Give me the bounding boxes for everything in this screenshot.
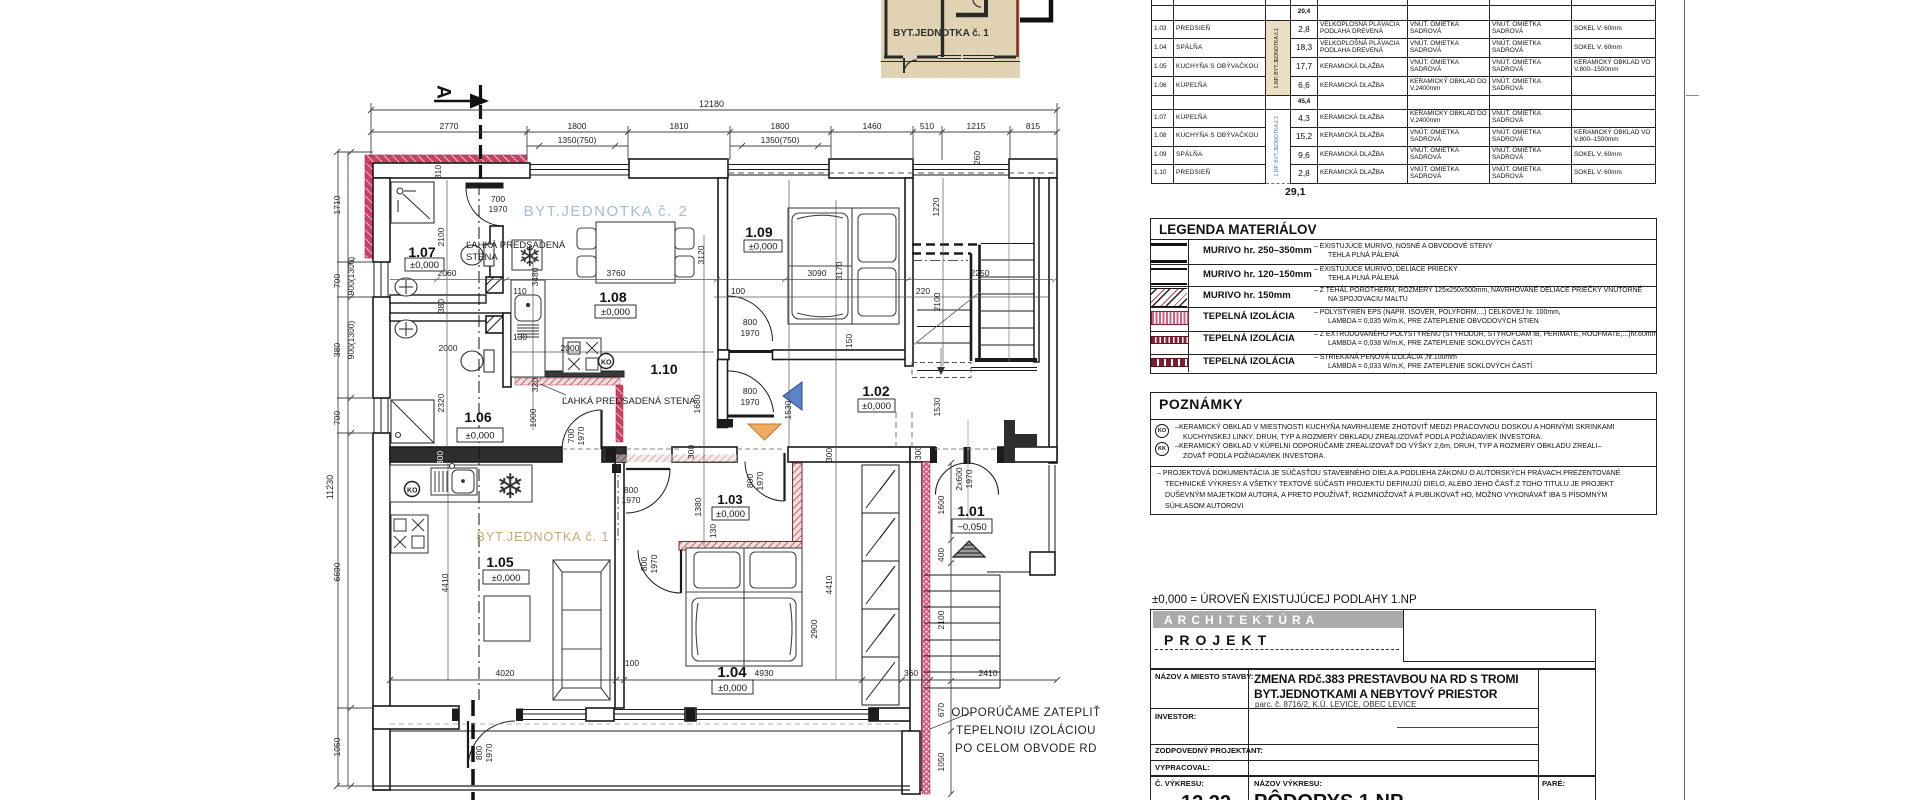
wall 1.05 / 1.03-1.04 vertical bbox=[615, 462, 624, 708]
cut row bbox=[1152, 0, 1656, 183]
bottom wall pier B bbox=[586, 708, 614, 721]
svg-text:1050: 1050 bbox=[332, 737, 342, 756]
interior dim line horizontal upper bbox=[390, 277, 1058, 297]
floor edge below stairs bbox=[917, 368, 1037, 371]
left wall terrace block bbox=[373, 708, 390, 790]
header cell divider bbox=[1403, 610, 1404, 662]
door dim labels bbox=[474, 194, 974, 762]
inset neighbour unit walls bbox=[1020, 0, 1053, 22]
svg-text:800: 800 bbox=[743, 386, 757, 396]
svg-text:±0,000: ±0,000 bbox=[862, 401, 891, 412]
svg-text:1460: 1460 bbox=[863, 121, 882, 131]
fridge snowflake 1.08 bbox=[512, 240, 542, 272]
svg-text:320: 320 bbox=[530, 378, 540, 392]
svg-text:1970: 1970 bbox=[622, 495, 641, 505]
svg-text:1.10: 1.10 bbox=[650, 361, 677, 377]
inset left wall bbox=[885, 0, 888, 58]
existing wall hatch in sep wall bbox=[613, 455, 737, 463]
svg-text:1380: 1380 bbox=[693, 497, 703, 516]
shower 1.06 bbox=[391, 400, 434, 443]
entrance door jambs bbox=[930, 447, 937, 463]
svg-text:1970: 1970 bbox=[489, 204, 508, 214]
shower 1.07 bbox=[391, 182, 434, 223]
svg-text:1810: 1810 bbox=[670, 121, 689, 131]
stair landing slab bottom thick bbox=[975, 358, 1037, 362]
svg-text:1.08: 1.08 bbox=[599, 289, 626, 305]
svg-text:A: A bbox=[433, 85, 454, 99]
window W6 bottom wall bbox=[516, 710, 586, 720]
svg-text:670: 670 bbox=[936, 703, 946, 717]
dimension chain left outer 11230 bbox=[334, 149, 340, 789]
note KO bbox=[1155, 424, 1169, 438]
porch side wall lines bbox=[987, 465, 1055, 572]
svg-text:310: 310 bbox=[433, 165, 443, 179]
threshold dashed lines bbox=[562, 448, 999, 450]
KO circle 1.08 bbox=[599, 354, 614, 369]
dining table 1.08 bbox=[577, 222, 694, 283]
svg-text:PO CELOM OBVODE RD: PO CELOM OBVODE RD bbox=[955, 743, 1097, 755]
svg-text:1.09: 1.09 bbox=[745, 224, 772, 240]
svg-text:1.06: 1.06 bbox=[464, 409, 491, 425]
svg-text:TEPELNOIU IZOLÁCIOU: TEPELNOIU IZOLÁCIOU bbox=[956, 724, 1096, 737]
bed 1.09 bbox=[788, 208, 899, 324]
wall stub above entrance horizontal bbox=[1015, 434, 1037, 448]
svg-text:1970: 1970 bbox=[741, 397, 760, 407]
window left wall W5 bbox=[374, 398, 388, 433]
signature lines bbox=[1397, 727, 1538, 728]
svg-text:380: 380 bbox=[436, 299, 446, 313]
svg-text:±0,000: ±0,000 bbox=[410, 260, 439, 271]
svg-text:KO: KO bbox=[601, 360, 612, 367]
window W2 top wall bbox=[728, 165, 829, 176]
subtotal 29,1 below table bbox=[1285, 187, 1305, 198]
svg-text:2000: 2000 bbox=[561, 343, 580, 353]
exterior entry stairs bbox=[924, 575, 1000, 688]
svg-text:2100: 2100 bbox=[936, 610, 946, 629]
svg-text:ĽAHKÁ PREDSADENÁ STENA: ĽAHKÁ PREDSADENÁ STENA bbox=[562, 396, 696, 407]
svg-text:800: 800 bbox=[743, 317, 757, 327]
svg-text:130: 130 bbox=[513, 332, 527, 342]
svg-text:2x600: 2x600 bbox=[954, 467, 964, 490]
shaft square 2 bbox=[486, 316, 503, 333]
svg-text:130: 130 bbox=[708, 524, 718, 538]
terrace right closure block bbox=[902, 731, 920, 794]
svg-text:2000: 2000 bbox=[439, 343, 458, 353]
pier top wall right corner bbox=[1009, 159, 1057, 178]
svg-text:4020: 4020 bbox=[496, 668, 515, 678]
row 1.07 bbox=[1152, 110, 1656, 128]
insulation red strip right vertical bbox=[922, 462, 930, 794]
inset door arc top bbox=[973, 0, 981, 7]
wall 1.06/1.10 vertical bbox=[503, 313, 511, 387]
bottom wall pier D bbox=[869, 708, 910, 721]
subtotal row 20,4 bbox=[1152, 5, 1656, 20]
inset outer edge line bbox=[881, 61, 1020, 63]
svg-text:1.05: 1.05 bbox=[486, 554, 513, 570]
window W8 bottom wall (1.04) bbox=[696, 710, 869, 720]
svg-text:700: 700 bbox=[332, 274, 342, 288]
entrance door double arcs bbox=[936, 463, 999, 495]
svg-text:800: 800 bbox=[474, 746, 484, 760]
bed 1.04 bbox=[686, 548, 802, 666]
svg-text:2100: 2100 bbox=[436, 227, 446, 246]
svg-text:300: 300 bbox=[686, 445, 696, 459]
svg-text:150: 150 bbox=[844, 334, 854, 348]
separating wall segment 2 bbox=[602, 447, 626, 462]
top exterior wall solid left segment bbox=[373, 163, 530, 178]
recommendation note text bbox=[951, 706, 1100, 755]
entrance wall right segment bbox=[998, 447, 1057, 462]
bottom band bbox=[1151, 775, 1595, 777]
insulation red strip left vertical bbox=[365, 163, 373, 258]
svg-text:1970: 1970 bbox=[741, 328, 760, 338]
svg-text:±0,000: ±0,000 bbox=[466, 431, 495, 442]
door arc 1.10 to 1.03 bbox=[626, 469, 670, 513]
svg-text:❄: ❄ bbox=[496, 468, 525, 506]
pier top wall 2 bbox=[829, 159, 913, 178]
svg-text:1.03: 1.03 bbox=[717, 492, 742, 507]
zodpovedny row bbox=[1151, 744, 1538, 745]
svg-text:300: 300 bbox=[913, 446, 923, 460]
cooktop 1.08 bbox=[563, 338, 601, 373]
corner jamb 1.10 bbox=[718, 419, 734, 428]
architektura grey band bbox=[1153, 611, 1403, 628]
right column divider bbox=[1538, 668, 1539, 800]
svg-text:BYT.JEDNOTKA č. 2: BYT.JEDNOTKA č. 2 bbox=[524, 203, 689, 220]
interior dim verticals bbox=[447, 178, 943, 680]
svg-text:1800: 1800 bbox=[771, 121, 790, 131]
svg-text:1.04: 1.04 bbox=[717, 664, 747, 681]
investor row bbox=[1151, 708, 1538, 709]
svg-text:2900: 2900 bbox=[809, 619, 819, 638]
wall bottom of 1.09 right part bbox=[773, 350, 913, 360]
walking line arrow bbox=[937, 367, 945, 375]
row 1.03 bbox=[1152, 20, 1656, 39]
wall 1.10|1.02 vertical stub bbox=[718, 360, 728, 428]
svg-text:STENA: STENA bbox=[466, 252, 498, 263]
svg-text:900(1300): 900(1300) bbox=[346, 256, 356, 295]
entrance door axis line bbox=[967, 420, 969, 532]
svg-text:2320: 2320 bbox=[436, 393, 446, 412]
svg-text:3480: 3480 bbox=[530, 267, 540, 286]
window left wall W4 bbox=[374, 262, 388, 297]
svg-text:KO: KO bbox=[407, 488, 418, 495]
window W1 top wall bbox=[530, 165, 629, 176]
svg-text:1710: 1710 bbox=[332, 195, 342, 214]
wall stub above entrance vertical bbox=[1004, 420, 1015, 463]
kitchen counter 1.05 bbox=[390, 464, 532, 503]
left exterior wall upper bbox=[373, 178, 390, 262]
subtotal row 45,4 bbox=[1152, 96, 1656, 110]
svg-text:100: 100 bbox=[731, 286, 745, 296]
svg-text:3090: 3090 bbox=[808, 268, 827, 278]
left column lower steps bbox=[917, 310, 971, 343]
entrance door centre post bbox=[964, 447, 971, 464]
stair landing edge outer dashed L bbox=[912, 243, 980, 246]
entry triangle marker 1.01 bbox=[953, 541, 985, 557]
orange triangle marker bbox=[748, 424, 781, 440]
svg-text:1.02: 1.02 bbox=[862, 383, 889, 399]
terrace outer edge bbox=[373, 786, 910, 790]
stair right wall bbox=[1034, 178, 1039, 362]
blue triangle marker bbox=[783, 382, 802, 410]
shaft square 1 bbox=[486, 277, 503, 293]
svg-text:1970: 1970 bbox=[755, 471, 765, 490]
inset interior wall bbox=[941, 0, 944, 57]
svg-text:700: 700 bbox=[332, 411, 342, 425]
svg-text:1350(750): 1350(750) bbox=[761, 135, 800, 145]
dimension chain right porch bbox=[948, 460, 954, 797]
svg-text:4410: 4410 bbox=[440, 573, 450, 592]
svg-text:1800: 1800 bbox=[568, 121, 587, 131]
insulation red strip top-left horizontal bbox=[365, 155, 527, 163]
kitchen partition light wall bbox=[511, 371, 624, 377]
entrance wall left jamb bbox=[910, 447, 935, 462]
svg-text:220: 220 bbox=[916, 286, 930, 296]
terrace step line bbox=[390, 730, 902, 732]
svg-text:900(1300): 900(1300) bbox=[346, 320, 356, 359]
svg-text:800: 800 bbox=[624, 485, 638, 495]
stair landing edge inner dashed L bbox=[912, 252, 971, 255]
wall 1.08|1.09 vertical bbox=[718, 178, 728, 350]
svg-text:1215: 1215 bbox=[967, 121, 986, 131]
vypracoval row bbox=[1151, 760, 1538, 761]
black jambs bottom wall bbox=[452, 447, 879, 721]
basin 1.06 bbox=[395, 320, 417, 338]
svg-text:±0,000: ±0,000 bbox=[749, 242, 778, 253]
symbol murivo 120-150 bbox=[1151, 268, 1187, 285]
symbol izolacia eps bbox=[1151, 311, 1189, 325]
inset bottom windows bbox=[938, 56, 994, 59]
wardrobe 1.04 bbox=[862, 465, 899, 705]
copyright paragraph bbox=[1157, 470, 1620, 477]
svg-text:800: 800 bbox=[639, 557, 649, 571]
window W3 top wall bbox=[913, 165, 1009, 176]
upper wing interior: wall between 1.07 and 1.06 (duct band) bbox=[390, 295, 503, 321]
svg-text:300: 300 bbox=[824, 448, 834, 462]
window W7 bottom wall bbox=[614, 710, 685, 720]
jamb black at 1.03 left bbox=[612, 464, 621, 473]
svg-text:1970: 1970 bbox=[484, 743, 494, 762]
small tick on right border bbox=[1686, 95, 1699, 96]
svg-text:1.01: 1.01 bbox=[957, 503, 984, 519]
svg-text:4930: 4930 bbox=[755, 668, 774, 678]
svg-text:±0,000: ±0,000 bbox=[601, 307, 630, 318]
door arc 1.03 to 1.04 bbox=[638, 550, 681, 593]
new porotherm wall vertical (right of 1.03) bbox=[793, 463, 803, 547]
svg-text:11230: 11230 bbox=[325, 475, 335, 499]
walking line diagonal bbox=[912, 292, 980, 346]
section arrow A bbox=[433, 85, 490, 108]
svg-text:12180: 12180 bbox=[699, 99, 724, 109]
svg-text:700: 700 bbox=[566, 429, 576, 443]
separating wall segment 3 bbox=[672, 447, 737, 462]
svg-text:300: 300 bbox=[435, 451, 445, 465]
coffee table 1.05 bbox=[484, 596, 530, 641]
note KK bbox=[1155, 442, 1169, 456]
svg-text:1530: 1530 bbox=[932, 397, 942, 416]
porch pillar bbox=[1030, 552, 1055, 575]
svg-text:400: 400 bbox=[936, 548, 946, 562]
legend title bbox=[1159, 223, 1317, 237]
svg-text:815: 815 bbox=[1026, 121, 1040, 131]
svg-text:1350(750): 1350(750) bbox=[558, 135, 597, 145]
insulation red strip vertical at corridor bbox=[616, 385, 623, 442]
door arc terrace bbox=[468, 721, 515, 768]
svg-text:2250: 2250 bbox=[971, 268, 990, 278]
svg-text:1970: 1970 bbox=[576, 426, 586, 445]
svg-text:2100: 2100 bbox=[932, 292, 942, 311]
svg-text:±0,000: ±0,000 bbox=[716, 509, 745, 520]
svg-text:1970: 1970 bbox=[964, 469, 974, 488]
cut big texts at bottom bbox=[1181, 793, 1231, 800]
separating wall segment 4 bbox=[788, 447, 910, 462]
stair flight axis dash-dot bbox=[912, 260, 968, 262]
row 1.06 bbox=[1152, 77, 1656, 96]
svg-text:±0,000: ±0,000 bbox=[718, 683, 747, 694]
basin 1.07 bbox=[395, 278, 417, 296]
svg-text:1000: 1000 bbox=[528, 408, 538, 427]
bottom wall pier C bbox=[685, 708, 696, 721]
bottom exterior wall segment A bbox=[373, 706, 459, 729]
right lower wall (porch side) bbox=[910, 462, 922, 790]
dimension line bottom rooms bbox=[387, 677, 1060, 683]
svg-text:6690: 6690 bbox=[332, 562, 342, 581]
svg-text:−0,050: −0,050 bbox=[957, 522, 986, 533]
dashed area under stairs bbox=[912, 363, 971, 378]
symbol izolacia xps bbox=[1151, 336, 1189, 344]
door arc 1.09 bbox=[728, 296, 773, 352]
svg-text:360: 360 bbox=[904, 668, 918, 678]
section line A-A bbox=[473, 85, 481, 800]
door arc 1.07 bbox=[466, 183, 504, 226]
dimension chain left segments bbox=[337, 149, 373, 789]
hidden line above plan dashed bbox=[728, 172, 1057, 174]
stove 1.05 bbox=[391, 515, 428, 553]
svg-text:110: 110 bbox=[513, 286, 527, 296]
svg-text:4410: 4410 bbox=[824, 575, 834, 594]
inset red edge line bbox=[1016, 0, 1019, 57]
new porotherm wall horizontal (below 1.03) bbox=[679, 542, 802, 551]
wall bottom of 1.09 left part bbox=[718, 350, 729, 360]
inset bottom wall segments bbox=[884, 56, 1016, 59]
pier top wall 1 bbox=[629, 159, 728, 178]
insulation pink strip along partition bbox=[515, 378, 620, 385]
svg-text:380: 380 bbox=[332, 343, 342, 357]
svg-text:1970: 1970 bbox=[649, 554, 659, 573]
dashed line under bottom wall bbox=[390, 723, 902, 725]
svg-text:1600: 1600 bbox=[936, 495, 946, 514]
kitchen counter 1.08 vertical bbox=[511, 280, 545, 377]
stair left wall bbox=[905, 178, 913, 366]
row 1.08 bbox=[1152, 127, 1656, 146]
svg-text:510: 510 bbox=[920, 121, 934, 131]
left exterior wall lower bbox=[373, 433, 390, 708]
svg-text:3170: 3170 bbox=[834, 261, 844, 280]
svg-text:3760: 3760 bbox=[607, 268, 626, 278]
symbol murivo 250-350 bbox=[1151, 243, 1187, 263]
svg-text:1220: 1220 bbox=[931, 197, 941, 216]
separating wall between wings segment 1 bbox=[390, 447, 562, 462]
svg-text:BYT.JEDNOTKA č. 1: BYT.JEDNOTKA č. 1 bbox=[476, 530, 609, 544]
svg-text:260: 260 bbox=[972, 151, 982, 165]
stair axis ext line bbox=[1008, 178, 1010, 362]
svg-text:2770: 2770 bbox=[440, 121, 459, 131]
door axis dashed lines 1.02 bbox=[896, 412, 912, 447]
row 1.05 bbox=[1152, 58, 1656, 77]
KO circle 1.05 bbox=[405, 482, 420, 497]
legend texts bbox=[1203, 246, 1312, 256]
wc 1.06 bbox=[461, 350, 494, 372]
row 1.10 bbox=[1152, 165, 1656, 184]
door arc sep-wall 700 upper leaf bbox=[562, 410, 602, 450]
door arc 1.10 to 1.02 bbox=[728, 371, 775, 416]
inset door leaf + arc bbox=[904, 58, 917, 73]
svg-text:BYT.JEDNOTKA č. 1: BYT.JEDNOTKA č. 1 bbox=[893, 28, 989, 39]
notes title bbox=[1159, 397, 1243, 411]
svg-text:100: 100 bbox=[625, 658, 639, 668]
left exterior wall mid bbox=[373, 297, 390, 398]
right exterior wall of upper wing bbox=[1049, 178, 1057, 463]
svg-text:1530: 1530 bbox=[783, 400, 793, 419]
row 1.09 bbox=[1152, 146, 1656, 165]
dimension chain top overall bbox=[368, 103, 1060, 160]
dimension chain top partial windows bbox=[527, 143, 831, 149]
wc 1.07 bbox=[461, 244, 494, 266]
projekt bbox=[1164, 633, 1272, 647]
page frame right border bbox=[1684, 0, 1685, 800]
symbol murivo 150 red hatch bbox=[1151, 288, 1187, 307]
svg-text:700: 700 bbox=[491, 194, 505, 204]
door arc 1.02 to 1.03 bbox=[745, 453, 785, 501]
svg-text:±0,000: ±0,000 bbox=[492, 573, 521, 584]
svg-text:ĽAHKÁ PREDSADENÁ: ĽAHKÁ PREDSADENÁ bbox=[466, 240, 566, 251]
svg-text:800: 800 bbox=[745, 474, 755, 488]
dimension chain top segments bbox=[368, 126, 1060, 160]
wall axis dashed 1.03 bbox=[617, 464, 619, 540]
svg-text:2410: 2410 bbox=[979, 668, 998, 678]
wall 1.07/1.08 vertical bbox=[490, 226, 503, 277]
inset L wall bbox=[956, 0, 988, 16]
lower flight steps right column bbox=[981, 244, 1034, 346]
svg-text:ODPORÚČAME ZATEPLIŤ: ODPORÚČAME ZATEPLIŤ bbox=[951, 706, 1100, 719]
sofa 1.05 bbox=[553, 560, 610, 700]
svg-text:3120: 3120 bbox=[696, 245, 706, 264]
nazov row bbox=[1155, 673, 1253, 681]
row separators bbox=[1151, 264, 1656, 265]
row 1.04 bbox=[1152, 39, 1656, 58]
inset beige body bbox=[881, 0, 1020, 78]
symbol izolacia pena bbox=[1151, 358, 1189, 367]
svg-text:1050: 1050 bbox=[936, 752, 946, 771]
